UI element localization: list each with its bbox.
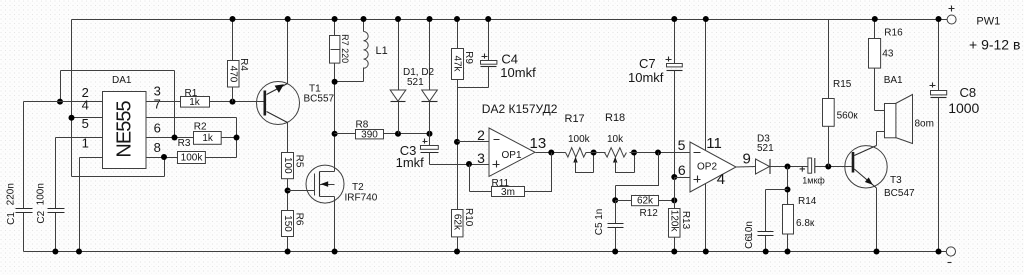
node T1 collector rail junction (285, 16, 291, 22)
svg-text:10k: 10k (607, 134, 624, 145)
svg-text:3: 3 (477, 150, 485, 166)
svg-text:1k: 1k (202, 133, 214, 144)
wire DA1 right edge to pin6 (174, 71, 176, 138)
diode D3 (756, 159, 770, 174)
svg-text:C8: C8 (960, 85, 977, 100)
wire pin 3 to R1 (147, 101, 181, 103)
node C8 top rail junction (936, 16, 942, 22)
node pin5 feedback junction (655, 150, 661, 156)
capacitor C8 (938, 20, 940, 91)
wire pin 7 over to R2/R3 column (147, 118, 237, 158)
node C4 top rail junction (485, 16, 491, 22)
node R7 top rail junction (332, 16, 338, 22)
node pin4 ground junction (703, 249, 709, 255)
node T2 source ground junction (332, 249, 338, 255)
svg-text:43: 43 (882, 49, 894, 60)
capacitor C6 (766, 190, 788, 252)
resistor R7 (334, 20, 336, 134)
svg-text:R10: R10 (463, 208, 474, 227)
svg-text:5: 5 (82, 116, 89, 131)
svg-text:9: 9 (743, 151, 751, 168)
wire pin 1 to ground (80, 158, 103, 252)
svg-text:R6: R6 (293, 213, 304, 226)
svg-text:NE555: NE555 (114, 101, 136, 158)
capacitor C5 (615, 201, 617, 252)
node R4 junction (230, 99, 236, 105)
resistor R16 (874, 20, 876, 39)
svg-text:R7 220: R7 220 (340, 34, 350, 63)
svg-text:R4: R4 (238, 58, 249, 71)
svg-text:R8: R8 (356, 119, 369, 130)
svg-text:4: 4 (82, 97, 89, 112)
wire OP2 output (736, 166, 756, 169)
svg-text:1n: 1n (594, 209, 605, 220)
wire R14 branch (787, 167, 789, 205)
node D2 junction (427, 131, 433, 137)
svg-text:7: 7 (154, 97, 161, 112)
wire R18 to OP2 pin5 (630, 152, 691, 154)
svg-text:T2: T2 (352, 182, 364, 193)
svg-text:100k: 100k (181, 153, 204, 164)
capacitor C9 1mkf coupling (808, 158, 812, 173)
op-amp DA1 NE555 body (103, 92, 147, 169)
wire left vertical drop from top rail / DA1 left edge (71, 20, 73, 177)
potentiometer R17 (566, 148, 590, 157)
node OP1 output junction (548, 150, 554, 156)
svg-text:62k: 62k (637, 196, 654, 207)
capacitor C4 (488, 20, 490, 61)
node D1 top rail junction (395, 16, 401, 22)
svg-text:1мкф: 1мкф (802, 175, 825, 185)
node R14 ground junction (785, 249, 791, 255)
terminal PW1 positive (947, 15, 956, 24)
svg-text:C6: C6 (744, 236, 755, 249)
wire pin6 to OP2 (675, 177, 691, 179)
svg-text:BA1: BA1 (884, 75, 903, 86)
svg-text:6.8к: 6.8к (796, 218, 815, 229)
resistor R13 (669, 209, 681, 238)
svg-text:OP1: OP1 (502, 150, 522, 161)
svg-text:8om: 8om (915, 119, 934, 130)
wire pin 6 to R2 (147, 137, 194, 139)
svg-text:R1: R1 (185, 88, 198, 99)
wire OP2 pin11 from top rail (705, 20, 707, 151)
node R15 T3 base junction (825, 164, 831, 170)
svg-text:C7: C7 (639, 56, 656, 71)
svg-text:521: 521 (757, 143, 774, 154)
svg-text:150: 150 (282, 215, 293, 232)
node R14 junction (785, 164, 791, 170)
node pin2 junction (57, 99, 63, 105)
node pin1 ground junction (76, 249, 82, 255)
capacitor C1 (23, 102, 25, 252)
resistor R5 (282, 153, 294, 179)
wire R8 to diodes (384, 133, 430, 135)
svg-text:10mkf: 10mkf (500, 65, 536, 80)
svg-text:62k: 62k (452, 214, 463, 231)
node R2 R3 pin7 junction (234, 135, 240, 141)
wire R5 to R6 (287, 179, 289, 211)
transistor T1 BC557 (257, 82, 300, 125)
svg-text:100: 100 (282, 157, 293, 174)
node R6 ground junction (285, 249, 291, 255)
wire C3 to OP1 pin3 (430, 164, 490, 166)
svg-text:R2: R2 (194, 121, 207, 132)
svg-text:R18: R18 (605, 112, 625, 124)
node R4 top rail junction (230, 16, 236, 22)
svg-text:10mkf: 10mkf (628, 70, 664, 85)
node R12 right junction (671, 197, 677, 203)
wire pin6 down to R12 R13 (674, 178, 676, 209)
wire R17 to R18 (590, 152, 606, 154)
svg-text:C1: C1 (6, 212, 17, 225)
svg-text:6: 6 (154, 121, 161, 136)
wire C1 to pin 2 (24, 101, 103, 103)
node OP1 pin2 junction (454, 139, 460, 145)
wire D3 to C9 (770, 166, 808, 168)
resistor R15 (828, 20, 830, 99)
node R13 ground junction (671, 249, 677, 255)
node R18 wiper junction (631, 150, 637, 156)
resistor R8 (335, 133, 356, 135)
node gate junction (285, 188, 291, 194)
resistor R6 (282, 211, 294, 237)
svg-text:IRF740: IRF740 (345, 193, 378, 204)
diode D2 (429, 20, 431, 91)
node C2 ground junction (52, 249, 58, 255)
resistor R4 (232, 20, 234, 102)
svg-text:1mkf: 1mkf (396, 155, 425, 170)
wire gate of T2 (288, 190, 315, 192)
svg-text:R14: R14 (798, 196, 817, 207)
svg-text:1: 1 (82, 136, 89, 151)
svg-text:560к: 560к (837, 111, 859, 122)
wire DA1 bottom edge (72, 176, 165, 178)
svg-text:BC557: BC557 (304, 94, 335, 105)
svg-text:6: 6 (678, 162, 686, 178)
wire OP2 pin4 to ground (705, 184, 707, 252)
svg-text:R9: R9 (463, 51, 474, 64)
svg-text:47k: 47k (452, 55, 463, 72)
diode D1 (398, 20, 400, 91)
svg-text:5: 5 (678, 137, 686, 153)
op-amp OP2 (690, 142, 736, 192)
svg-text:PW1: PW1 (976, 16, 1000, 28)
wire R6 to ground (287, 237, 289, 252)
node pin6 DA1 edge junction (172, 135, 178, 141)
node C6 branch junction (785, 187, 791, 193)
resistor R12 (616, 200, 632, 202)
wire pin5 feedback down to R12 C5 (616, 153, 659, 201)
node pin4 junction (69, 115, 75, 121)
node D1 junction (395, 131, 401, 137)
wire top power rail (72, 19, 948, 21)
wire R1 to T1 base (210, 101, 264, 103)
wire pin2 to OP1 (458, 141, 490, 143)
node T3 emitter ground junction (874, 249, 880, 255)
op-amp OP1 (489, 128, 535, 176)
resistor R14 (783, 205, 794, 235)
svg-text:100k: 100k (568, 134, 591, 145)
inductor L1 (363, 20, 365, 32)
node R16 top rail junction (872, 16, 878, 22)
transistor T3 BC547 (845, 146, 887, 188)
node R9 top rail junction (454, 16, 460, 22)
resistor R11 feedback (525, 153, 552, 192)
node D2 top rail junction (427, 16, 433, 22)
capacitor C7 (674, 20, 676, 64)
node R11 pin3 junction (466, 161, 472, 167)
resistor R9 (457, 20, 459, 49)
svg-text:11: 11 (706, 135, 722, 152)
svg-text:220n: 220n (6, 183, 17, 205)
wire pin 4 from left rail (72, 117, 103, 119)
svg-text:R15: R15 (833, 79, 852, 90)
svg-text:100n: 100n (36, 183, 47, 205)
svg-text:DA2 К157УД2: DA2 К157УД2 (482, 102, 558, 116)
svg-text:R17: R17 (565, 113, 585, 125)
node R8 T2 drain junction (332, 131, 338, 137)
wire R9 C4 column down to OP1 pin2 and R10 (457, 88, 459, 210)
svg-text:R12: R12 (640, 208, 659, 219)
resistor R10 (452, 210, 464, 237)
node C5 ground junction (612, 249, 618, 255)
wire DA1 lower right edge from pin8 (164, 158, 166, 177)
node L1 top rail junction (361, 16, 367, 22)
wire bottom ground rail (24, 251, 947, 253)
svg-text:1k: 1k (189, 97, 201, 108)
node pin8 DA1 edge junction (161, 154, 167, 160)
svg-text:R3: R3 (178, 138, 191, 149)
svg-text:4: 4 (717, 171, 725, 188)
wire DA1 top edge (61, 70, 175, 72)
svg-text:R5: R5 (293, 155, 304, 168)
wire R2 right to junction (222, 137, 237, 139)
wire OP1 output (536, 152, 566, 154)
svg-text:+ 9-12 в: + 9-12 в (969, 37, 1020, 53)
wire pin 5 to C2 (56, 137, 103, 139)
node R10 ground junction (454, 249, 460, 255)
resistor R2 (194, 132, 222, 145)
svg-text:1000: 1000 (948, 100, 979, 116)
svg-text:C2: C2 (36, 210, 47, 223)
capacitor C2 (55, 138, 57, 252)
svg-text:R16: R16 (884, 28, 903, 39)
svg-text:120k: 120k (669, 210, 680, 233)
svg-text:C5: C5 (594, 222, 605, 235)
wire pin 8 to R3 (147, 157, 178, 159)
resistor R3 (178, 152, 206, 164)
loudspeaker BA1 (875, 110, 885, 112)
terminal negative (946, 247, 955, 256)
node C6 ground junction (763, 249, 769, 255)
potentiometer R18 (605, 148, 627, 157)
capacitor C3 (429, 134, 431, 146)
svg-text:L1: L1 (376, 45, 388, 57)
svg-text:R11: R11 (492, 178, 510, 189)
svg-text:OP2: OP2 (697, 162, 717, 173)
svg-text:DA1: DA1 (112, 75, 132, 86)
node C7 top rail junction (671, 16, 677, 22)
svg-text:13: 13 (530, 135, 547, 152)
svg-text:521: 521 (407, 77, 424, 88)
wire C9 to T3 base (815, 166, 852, 168)
svg-text:R13: R13 (680, 211, 691, 230)
svg-text:8: 8 (154, 140, 161, 155)
svg-text:T3: T3 (890, 175, 902, 186)
svg-text:BC547: BC547 (884, 188, 915, 199)
svg-text:390: 390 (361, 130, 378, 141)
node R12 C5 junction (612, 197, 618, 203)
svg-text:10n: 10n (744, 221, 755, 238)
svg-text:470: 470 (228, 66, 239, 83)
node OP2 pin6 junction (671, 174, 677, 180)
node pin11 top rail junction (703, 16, 709, 22)
wire branch from DA1 top edge down to pin2 (60, 71, 62, 102)
svg-text:2: 2 (477, 127, 485, 143)
node C8 ground junction (936, 249, 942, 255)
resistor R1 (181, 97, 210, 108)
transistor T2 IRF740 (306, 165, 344, 203)
node L1 R7 junction (332, 79, 338, 85)
node R17 wiper junction (591, 150, 597, 156)
